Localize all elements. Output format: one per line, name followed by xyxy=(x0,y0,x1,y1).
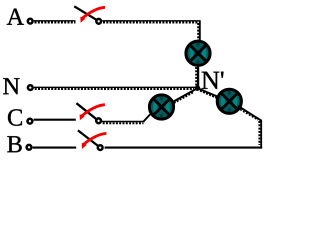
node label C xyxy=(8,109,22,125)
node label N' xyxy=(202,72,220,89)
wire lamp L3 to corner xyxy=(238,106,261,121)
node label N xyxy=(3,78,19,94)
wire C switch to lamp L2 xyxy=(102,122,145,124)
switch S3 pivot contact xyxy=(98,145,103,150)
wire B switch to corner (solid) xyxy=(105,147,263,149)
node N' junction dot xyxy=(195,86,200,91)
switch S2 pivot contact xyxy=(96,118,101,123)
terminal C xyxy=(28,119,33,124)
wire node N' to lamp L3 xyxy=(198,89,229,102)
wire A switch to corner xyxy=(102,21,200,23)
wire lamp L1 to node N' xyxy=(196,65,198,89)
switch S3 (phase B) blade xyxy=(78,130,99,146)
switch S1 (phase A) blade xyxy=(74,6,97,20)
switch S2 (phase C) blade xyxy=(76,103,97,120)
node label A xyxy=(7,9,24,25)
wire B terminal to switch (solid) xyxy=(33,147,76,149)
wire vertical corner down (phase B return) xyxy=(259,120,261,148)
lamp L3 (phase B) xyxy=(217,89,241,113)
wire A vertical drop to lamp L1 xyxy=(198,21,200,41)
lamp L2 (phase C) xyxy=(149,95,173,119)
terminal B xyxy=(27,145,32,150)
terminal N xyxy=(28,85,33,90)
terminal A xyxy=(28,19,33,24)
wire C terminal to switch (solid) xyxy=(34,119,76,121)
switch S1 pivot contact xyxy=(96,19,101,24)
wire A terminal to switch xyxy=(34,21,76,23)
wire node N' to lamp L2 xyxy=(144,89,197,122)
lamp L1 (phase A) xyxy=(186,41,210,65)
switch S2 closing arrow (red) xyxy=(80,105,105,121)
wire N terminal to node N' xyxy=(34,87,196,89)
switch S3 closing arrow (red) xyxy=(82,133,107,149)
switch S1 closing arrow (red) xyxy=(80,7,105,22)
node label B xyxy=(7,136,21,152)
